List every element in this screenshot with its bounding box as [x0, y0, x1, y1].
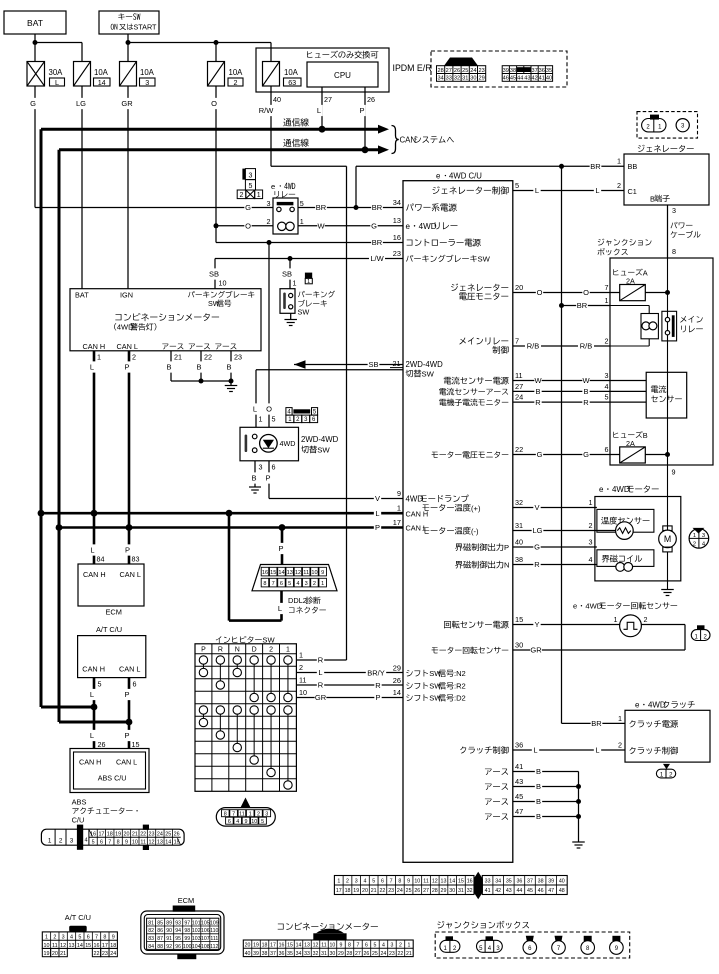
svg-text:92: 92 [166, 944, 172, 950]
svg-text:LG: LG [76, 99, 86, 108]
fuse 10A 14 [74, 62, 91, 87]
svg-text:1: 1 [321, 581, 324, 587]
inhibitor switch label [216, 636, 222, 643]
wire BR to junction box pin 1 [562, 305, 611, 307]
rotation sensor connector icon [697, 625, 705, 630]
wire L/W CU pin 23 to meter pin 10 [215, 258, 403, 260]
svg-text:36: 36 [515, 740, 523, 749]
svg-text:5: 5 [373, 943, 376, 949]
sensor pin 2 loop to GR wire [641, 624, 685, 626]
svg-text:13: 13 [441, 879, 447, 885]
svg-text:L: L [90, 546, 94, 555]
svg-text:1: 1 [589, 498, 593, 507]
svg-text:2: 2 [644, 615, 648, 624]
svg-text:36: 36 [539, 68, 545, 74]
inhibitor connector arrow [241, 798, 251, 808]
svg-text:94: 94 [175, 928, 181, 934]
svg-text:B: B [226, 363, 231, 372]
parking brake switch ground [290, 313, 292, 319]
motor connector icon [689, 529, 709, 549]
svg-text:4WD: 4WD [612, 485, 630, 494]
svg-text:111: 111 [210, 936, 218, 942]
CU connector keying tab [474, 872, 483, 899]
svg-text:CAN H: CAN H [82, 665, 105, 674]
wire LG CU pin 31 to thermistor pin 2 [513, 530, 616, 532]
junction box outline [610, 258, 713, 465]
svg-text:SB: SB [282, 270, 292, 279]
svg-text:G: G [30, 99, 36, 108]
inhibitor pin 2 wire to CU pin 29 [296, 672, 403, 674]
svg-text:31: 31 [458, 888, 464, 894]
svg-text:B: B [535, 387, 540, 396]
svg-text:31: 31 [462, 76, 468, 82]
svg-text:13: 13 [393, 216, 401, 225]
svg-text:22: 22 [379, 888, 385, 894]
svg-text:7: 7 [356, 943, 359, 949]
svg-text:1: 1 [299, 650, 303, 659]
svg-text:90: 90 [166, 928, 172, 934]
CU 48-pin connector block B [482, 876, 567, 895]
svg-text:B: B [166, 363, 171, 372]
wire Y CU pin 15 to sensor pin 1 [513, 624, 620, 626]
wire L CU pin 36 to clutch pin 2 [513, 749, 625, 751]
svg-text:BAT: BAT [27, 18, 43, 28]
svg-text:41: 41 [515, 762, 523, 771]
svg-text:99: 99 [184, 936, 190, 942]
svg-text:L: L [90, 363, 94, 372]
svg-text:SW: SW [298, 308, 310, 317]
svg-text:3: 3 [305, 581, 308, 587]
generator oval connector 2-1 [650, 115, 659, 120]
svg-text:11: 11 [299, 675, 306, 684]
svg-text:38: 38 [510, 68, 516, 74]
svg-text:L: L [90, 731, 94, 740]
svg-text:91: 91 [166, 936, 172, 942]
svg-text:35: 35 [546, 68, 552, 74]
svg-text:15: 15 [287, 943, 293, 949]
brace to CAN system [392, 126, 399, 154]
svg-text:22: 22 [94, 951, 100, 957]
svg-text:1: 1 [45, 935, 48, 941]
svg-text:93: 93 [175, 920, 181, 926]
rotation sensor symbol [620, 615, 642, 637]
meter CAN L pin 2 wire [128, 351, 131, 564]
svg-text:30: 30 [515, 640, 523, 649]
svg-text:63: 63 [288, 78, 296, 87]
svg-text:29: 29 [393, 663, 401, 672]
svg-text:SW: SW [422, 370, 435, 379]
svg-text:2: 2 [240, 192, 244, 199]
svg-text:14: 14 [393, 688, 401, 697]
A/T pin 6 wire to ABS pin 15 [128, 678, 131, 749]
svg-text:9: 9 [672, 468, 676, 477]
svg-text:7: 7 [108, 839, 111, 845]
select switch connector icon [286, 408, 292, 416]
svg-text:37: 37 [531, 68, 537, 74]
svg-text:2: 2 [257, 811, 260, 817]
svg-text:17: 17 [393, 518, 401, 527]
svg-text:25: 25 [462, 68, 468, 74]
svg-text:9: 9 [321, 570, 324, 576]
svg-text:26: 26 [393, 676, 401, 685]
svg-text:4: 4 [382, 943, 385, 949]
svg-text:R/B: R/B [580, 342, 593, 351]
svg-text:84: 84 [148, 944, 154, 950]
svg-text:B: B [643, 431, 648, 440]
svg-text:1: 1 [48, 838, 52, 845]
svg-text:15: 15 [270, 570, 276, 576]
svg-text:33: 33 [304, 951, 310, 957]
svg-text:27: 27 [324, 95, 332, 104]
svg-text:7: 7 [515, 336, 519, 345]
svg-text:B: B [536, 782, 541, 791]
svg-text:e: e [573, 602, 577, 611]
svg-text:5: 5 [605, 393, 609, 402]
junction box label [598, 239, 605, 246]
svg-text:24: 24 [110, 951, 116, 957]
svg-text:2: 2 [267, 217, 271, 226]
svg-text:27: 27 [423, 888, 429, 894]
svg-text:24: 24 [515, 393, 523, 402]
svg-text:21: 21 [393, 359, 401, 368]
CAN L bus line [59, 148, 379, 151]
junction connector 1-2 oval [446, 936, 454, 941]
svg-text:BR: BR [372, 238, 383, 247]
svg-text:19: 19 [353, 888, 359, 894]
svg-text:35: 35 [287, 951, 293, 957]
svg-text:BR: BR [590, 162, 601, 171]
wire key switch feed [127, 34, 129, 62]
motor ground [661, 589, 674, 591]
A/T C/U connector grid [42, 932, 117, 949]
ABS connector tab 1 [77, 825, 83, 850]
svg-text:5: 5 [300, 199, 304, 208]
svg-text:14: 14 [165, 839, 171, 845]
svg-text:CAN L: CAN L [120, 570, 142, 579]
svg-text:44: 44 [516, 888, 522, 894]
svg-text:6: 6 [228, 819, 231, 825]
svg-text:7: 7 [272, 581, 275, 587]
svg-text:BR: BR [316, 203, 327, 212]
svg-text:87: 87 [157, 936, 163, 942]
svg-text:3: 3 [589, 537, 593, 546]
svg-text:12: 12 [149, 839, 155, 845]
motor M symbol [663, 526, 672, 531]
svg-text:L: L [375, 509, 379, 518]
svg-text:M: M [664, 534, 671, 544]
svg-text:P: P [124, 690, 129, 699]
fuse 10A 63 inside IPDM [263, 62, 280, 87]
generator B terminal power cable [667, 205, 669, 258]
CPU box inside IPDM [307, 62, 378, 87]
svg-text:1: 1 [300, 217, 304, 226]
junction connector 6 [526, 936, 534, 941]
svg-text:1: 1 [618, 714, 622, 723]
svg-text:10A: 10A [284, 68, 299, 77]
svg-text:L: L [317, 106, 321, 115]
svg-text:3: 3 [390, 943, 393, 949]
svg-text:B: B [536, 767, 541, 776]
svg-text:7: 7 [232, 811, 235, 817]
wire R CU pin 24 to current sensor pin 5 [513, 401, 646, 403]
svg-text:IPDM E/R: IPDM E/R [393, 63, 432, 73]
svg-text:P: P [265, 474, 270, 483]
wire B ground pin 43 [513, 786, 579, 788]
svg-text:6: 6 [381, 879, 384, 885]
svg-text:104: 104 [192, 944, 201, 950]
svg-text:45: 45 [515, 792, 523, 801]
svg-text:1: 1 [614, 615, 618, 624]
svg-text:101: 101 [192, 920, 201, 926]
svg-text:4WD C/U: 4WD C/U [449, 172, 482, 181]
svg-text:107: 107 [201, 936, 210, 942]
svg-text:W: W [317, 222, 325, 231]
svg-text:L: L [278, 604, 282, 613]
svg-text:19: 19 [253, 943, 259, 949]
svg-text:16: 16 [262, 570, 268, 576]
wire B CU pin 27 to current sensor pin 4 [513, 390, 646, 392]
svg-text:P: P [375, 523, 380, 532]
svg-text:R: R [534, 560, 540, 569]
svg-text:41: 41 [539, 76, 545, 82]
svg-text:N: N [235, 647, 240, 654]
svg-text:21: 21 [371, 888, 377, 894]
svg-text:11: 11 [515, 371, 523, 380]
svg-text:2WD-4WD: 2WD-4WD [301, 435, 339, 444]
clutch box [625, 710, 710, 762]
wire G below fusible link [34, 86, 36, 208]
junction connector 8 [584, 936, 592, 941]
svg-text:11: 11 [321, 943, 326, 949]
svg-text:16: 16 [393, 233, 401, 242]
IPDM connector right grid [502, 66, 552, 82]
wire R/B CU pin 7 to junction pin 2 [513, 345, 610, 347]
svg-text:2: 2 [299, 663, 303, 672]
svg-text:1: 1 [617, 157, 621, 166]
generator round connector 3 [676, 119, 689, 132]
svg-text:6: 6 [280, 581, 283, 587]
svg-text:23: 23 [234, 353, 242, 362]
svg-text:8: 8 [117, 839, 120, 845]
IPDM E/R connector dashed box [431, 51, 567, 87]
svg-text:7: 7 [95, 935, 98, 941]
svg-text:8: 8 [224, 811, 227, 817]
svg-text:R: R [375, 681, 381, 690]
svg-text:6: 6 [365, 943, 368, 949]
svg-text:3: 3 [267, 199, 271, 208]
svg-text:P: P [375, 693, 380, 702]
svg-text:10A: 10A [229, 68, 244, 77]
svg-text:44: 44 [517, 76, 523, 82]
svg-text:4: 4 [296, 581, 299, 587]
svg-text:BAT: BAT [75, 291, 89, 300]
svg-text:20: 20 [124, 831, 130, 837]
svg-text:23: 23 [389, 951, 395, 957]
svg-text:L: L [595, 186, 599, 195]
pin 40 R/W wire from IPDM [270, 86, 272, 166]
svg-text:(+): (+) [471, 504, 481, 513]
e-4WD relay connector pin boxes [242, 169, 245, 180]
svg-text:14: 14 [77, 943, 83, 949]
svg-text:3: 3 [605, 371, 609, 380]
svg-text:11: 11 [239, 811, 245, 817]
wire GR below fuse 3 [127, 86, 129, 289]
svg-text:1: 1 [407, 943, 410, 949]
IPDM E/R box [256, 48, 389, 92]
svg-text:102: 102 [192, 928, 201, 934]
ECM connector [173, 906, 196, 912]
svg-text:22: 22 [515, 445, 523, 454]
generator box [624, 154, 709, 205]
svg-text:6: 6 [605, 445, 609, 454]
temp sensor box [597, 509, 654, 532]
svg-text:SW: SW [478, 255, 491, 264]
svg-text:GR: GR [121, 99, 133, 108]
svg-text:46: 46 [503, 76, 509, 82]
svg-text:27: 27 [515, 382, 523, 391]
svg-text:84: 84 [97, 555, 105, 564]
svg-text:27: 27 [446, 68, 452, 74]
svg-text:17: 17 [98, 831, 104, 837]
meter ground pin 21 [170, 351, 172, 381]
svg-text:ABS: ABS [72, 798, 87, 807]
svg-text:3: 3 [249, 172, 253, 179]
svg-text:10: 10 [219, 279, 227, 288]
svg-text:16: 16 [279, 943, 285, 949]
svg-text:34: 34 [495, 879, 501, 885]
svg-text:2: 2 [617, 181, 621, 190]
svg-text:25: 25 [165, 831, 171, 837]
inhibitor pin 10 wire to CU pin 14 [296, 697, 403, 699]
svg-text:R/B: R/B [527, 342, 540, 351]
svg-text:29: 29 [441, 888, 447, 894]
wire BAT feed [34, 34, 36, 62]
svg-text:89: 89 [166, 920, 172, 926]
svg-text:10: 10 [330, 943, 336, 949]
svg-text:SW: SW [317, 446, 330, 455]
wire BR relay pin 5 to CU pin 34 [298, 207, 403, 209]
svg-text:23: 23 [393, 249, 401, 258]
combination meter connector label [278, 924, 284, 930]
svg-text:2: 2 [313, 581, 316, 587]
combination meter connector grid [243, 940, 413, 957]
svg-text:5: 5 [372, 879, 375, 885]
svg-text:41: 41 [485, 888, 491, 894]
svg-text:1: 1 [259, 415, 263, 424]
svg-text:106: 106 [201, 928, 210, 934]
svg-text:2: 2 [399, 943, 402, 949]
inhibitor switch contacts [202, 664, 204, 668]
svg-text:4WD: 4WD [648, 701, 666, 710]
svg-text:38: 38 [515, 555, 523, 564]
svg-text:B: B [583, 387, 588, 396]
svg-text:26: 26 [98, 740, 106, 749]
svg-text:A/T C/U: A/T C/U [96, 625, 122, 634]
svg-text:45: 45 [510, 76, 516, 82]
svg-text:28: 28 [347, 951, 353, 957]
svg-text:BB: BB [628, 162, 638, 171]
svg-text:1: 1 [397, 504, 401, 513]
svg-text:3: 3 [672, 206, 676, 215]
svg-text:112: 112 [210, 944, 218, 950]
svg-text:5: 5 [78, 935, 81, 941]
svg-text:B: B [251, 474, 256, 483]
CAN H branch to DDL2 pin 6 [228, 513, 231, 620]
svg-text:BR/Y: BR/Y [367, 669, 385, 678]
svg-text:R: R [318, 681, 324, 690]
svg-text:23: 23 [478, 68, 484, 74]
svg-text:G: G [537, 450, 543, 459]
svg-text:24: 24 [157, 831, 163, 837]
svg-text:24: 24 [470, 68, 476, 74]
svg-text:BR: BR [372, 203, 383, 212]
svg-text:43: 43 [506, 888, 512, 894]
svg-text:20: 20 [362, 888, 368, 894]
wire V CU pin 32 to motor pin 1 [513, 507, 597, 509]
svg-text:36: 36 [279, 951, 285, 957]
wire B ground pin 41 [513, 771, 579, 773]
svg-text:29: 29 [478, 76, 484, 82]
svg-text:O: O [211, 99, 217, 108]
svg-text:21: 21 [60, 951, 66, 957]
svg-text:8: 8 [398, 879, 401, 885]
svg-text:25: 25 [406, 888, 412, 894]
svg-text:3: 3 [702, 533, 705, 539]
svg-text:13: 13 [304, 943, 310, 949]
svg-text:e: e [599, 485, 604, 494]
svg-text:11: 11 [423, 879, 429, 885]
wire R/W bus down the page [271, 165, 347, 167]
svg-text:GR: GR [315, 693, 327, 702]
svg-text:1: 1 [605, 296, 609, 305]
svg-text:R: R [318, 656, 324, 665]
svg-text:R/W: R/W [259, 106, 275, 115]
svg-text:32: 32 [467, 888, 473, 894]
svg-text:8: 8 [348, 943, 351, 949]
svg-text:95: 95 [175, 936, 181, 942]
svg-text:38: 38 [538, 879, 544, 885]
e-4WD motor box [595, 497, 681, 581]
svg-text:DDL2: DDL2 [288, 596, 307, 605]
svg-text:35: 35 [506, 879, 512, 885]
svg-text:5: 5 [272, 415, 276, 424]
svg-text:P: P [201, 647, 206, 654]
CU 48-pin connector block A [334, 876, 474, 895]
svg-text:4: 4 [605, 382, 609, 391]
svg-text:CAN L: CAN L [406, 524, 428, 533]
svg-text:B: B [650, 194, 655, 203]
svg-text:2: 2 [234, 78, 238, 87]
svg-text:2: 2 [53, 935, 56, 941]
svg-text:10: 10 [251, 819, 257, 825]
svg-text:6: 6 [87, 935, 90, 941]
svg-text:13: 13 [157, 839, 163, 845]
svg-text:4: 4 [84, 838, 87, 844]
svg-text:2: 2 [59, 838, 63, 845]
svg-text:A/T C/U: A/T C/U [65, 913, 91, 922]
svg-text:CAN H: CAN H [83, 570, 106, 579]
wire R CU pin 38 to field coil pin 4 [513, 564, 597, 566]
svg-text:GR: GR [530, 646, 542, 655]
svg-text:14: 14 [296, 943, 302, 949]
svg-text:N: N [504, 561, 509, 570]
svg-text:26: 26 [364, 951, 370, 957]
svg-text:8: 8 [263, 581, 266, 587]
svg-text:8: 8 [103, 935, 106, 941]
IPDM connector keying tab [444, 58, 478, 66]
svg-text:e: e [271, 182, 275, 191]
svg-text:V: V [534, 503, 539, 512]
